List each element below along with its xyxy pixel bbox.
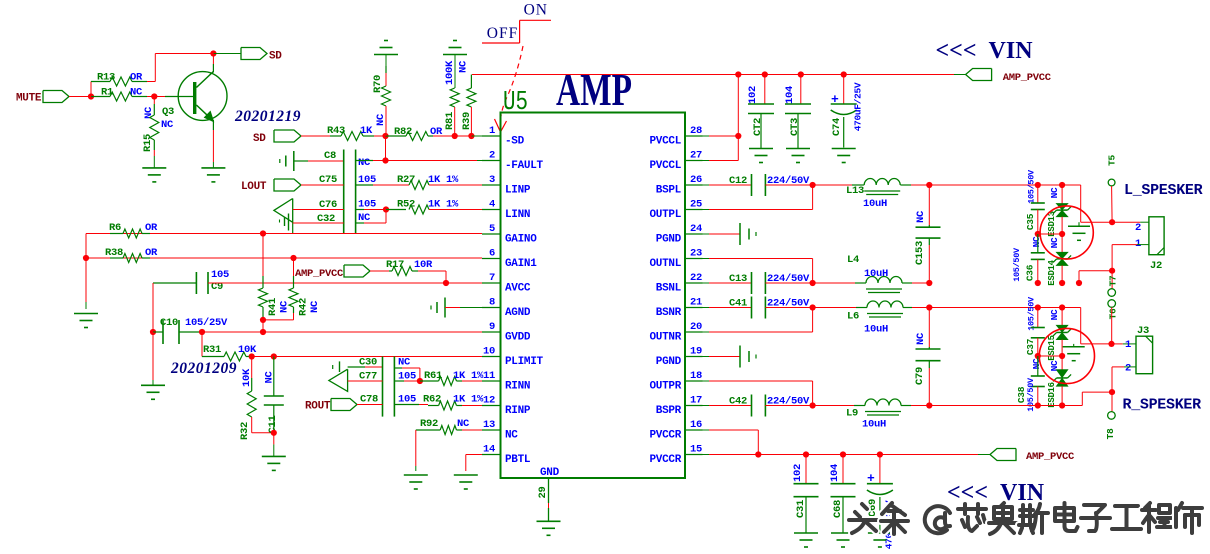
svg-text:9: 9 [489, 321, 495, 333]
capacitor C38 lead [1037, 356, 1039, 376]
svg-text:NC: NC [263, 371, 275, 384]
label ESD16 rotated [1047, 382, 1057, 408]
inductor L6 leads [813, 307, 856, 309]
wire C8 to pin2 [356, 160, 373, 162]
wire C36 bottom [1037, 259, 1039, 283]
svg-text:CT2: CT2 [752, 118, 764, 136]
svg-text:ESD14: ESD14 [1047, 259, 1057, 285]
svg-text:GAINO: GAINO [505, 234, 537, 246]
value NC of C153 rotated [915, 210, 927, 223]
port SD output connector [241, 48, 267, 60]
port SD input connector [274, 130, 301, 142]
wire AMPPVCC to R17 [370, 270, 389, 272]
wire C35 bottom [1037, 210, 1039, 235]
node R42 top junction [290, 255, 296, 261]
inductor L4 leads [813, 282, 855, 284]
svg-text:2: 2 [1135, 222, 1141, 234]
wire C153 bottom [928, 238, 930, 245]
wire R41 R42 bottoms [262, 307, 264, 320]
node pin1 left junction [382, 133, 388, 139]
wire R81 bottom [454, 107, 456, 136]
wire ESD15 to mid [1061, 340, 1063, 357]
wire C78 right [394, 404, 419, 406]
svg-text:R1: R1 [101, 87, 113, 99]
capacitor C31 [794, 483, 819, 485]
diode ESD14 [1061, 234, 1063, 252]
capacitor C35 [1031, 202, 1045, 204]
wire SD rail [155, 53, 213, 55]
svg-text:LOUT: LOUT [241, 181, 267, 193]
wire C75 to R27 [356, 184, 373, 186]
label ESD15 rotated [1047, 335, 1057, 361]
svg-text:C78: C78 [360, 394, 378, 406]
svg-text:AMP_PVCC: AMP_PVCC [295, 268, 344, 280]
svg-text:OR: OR [130, 72, 143, 84]
svg-text:C74: C74 [831, 118, 843, 136]
wire R1 to base node [147, 96, 155, 98]
wire C9C10 vertical [152, 283, 154, 332]
wire R15 to ground [153, 140, 155, 150]
node J2pin1 rail junction [1076, 280, 1082, 286]
svg-text:C37: C37 [1025, 338, 1036, 355]
value NC of ESD16 rotated [1049, 360, 1060, 371]
wire R17 to AVCC node [418, 270, 446, 272]
wire C13 to node [765, 282, 812, 284]
label C69 rotated [867, 499, 879, 517]
svg-text:2: 2 [489, 150, 495, 162]
inductor L6 [867, 301, 903, 308]
svg-text:102: 102 [792, 464, 804, 482]
value NC of ESD14 rotated [1049, 237, 1060, 248]
svg-text:R43: R43 [327, 125, 345, 137]
wire LOUT to C75 [301, 184, 344, 186]
svg-text:R27: R27 [397, 174, 415, 186]
wire to pin1 [471, 135, 482, 137]
svg-text:BSNR: BSNR [656, 307, 682, 319]
svg-text:PVCCL: PVCCL [649, 136, 681, 148]
value 105/50V of C36 rotated [1012, 247, 1022, 282]
wire R92 to pin13 [462, 429, 482, 431]
node ESD15 top junction [1059, 304, 1065, 310]
label R81 rotated [444, 112, 456, 130]
node C11 bottom junction [271, 430, 277, 436]
label C37 rotated [1025, 338, 1036, 355]
svg-text:4: 4 [489, 199, 495, 211]
capacitor C68 lead [842, 455, 844, 484]
svg-text:BSNL: BSNL [656, 283, 682, 295]
wire mid node [1038, 233, 1062, 235]
svg-text:24: 24 [690, 223, 702, 235]
resistor R61 [420, 380, 439, 382]
value NC of R15 rotated [143, 106, 155, 119]
capacitor C37 lead [1037, 308, 1039, 328]
svg-text:C13: C13 [729, 273, 747, 285]
wire C77 left [348, 380, 365, 382]
wire C10 left lead [153, 331, 163, 333]
svg-text:R31: R31 [203, 344, 221, 356]
wire C41 to node [765, 307, 812, 309]
svg-text:AVCC: AVCC [505, 283, 531, 295]
svg-text:MUTE: MUTE [16, 93, 42, 105]
resistor R70 top lead [385, 66, 387, 73]
svg-text:C75: C75 [319, 174, 337, 186]
wire C32 left [293, 222, 344, 224]
wire T5 [1111, 186, 1114, 222]
capacitor C36 [1031, 252, 1045, 254]
wire to J2 pin2 [1080, 185, 1082, 222]
svg-text:18: 18 [690, 370, 702, 382]
resistor R70 [382, 86, 391, 106]
resistor R39 [467, 88, 476, 107]
capacitor C38 [1031, 375, 1045, 377]
svg-text:R81: R81 [444, 112, 456, 130]
capacitor cluster right plate [355, 150, 357, 235]
value NC of R42 rotated [309, 300, 321, 313]
wire L13 rail right [929, 184, 1080, 186]
wire GAIN0 rail [86, 233, 482, 235]
value NC of R39 rotated [457, 60, 469, 73]
svg-text:1: 1 [1135, 238, 1141, 250]
node R41 bottom junction [260, 317, 266, 323]
inductor L4 [866, 277, 902, 284]
inductor L13 [864, 179, 900, 185]
svg-text:1: 1 [1125, 339, 1131, 351]
wire MUTE to node [69, 96, 91, 98]
wire mid node 2 [1038, 355, 1062, 357]
node C69 junction [877, 451, 883, 457]
label C74 rotated [831, 118, 843, 136]
svg-text:7: 7 [489, 272, 495, 284]
svg-text:C77: C77 [359, 371, 377, 383]
svg-text:PVCCR: PVCCR [649, 430, 681, 442]
svg-text:1K 1%: 1K 1% [453, 370, 484, 382]
wire ESD16 bottom [1061, 386, 1063, 405]
node R39 junction [468, 133, 474, 139]
svg-text:12: 12 [483, 395, 495, 407]
value 102 of CT2 rotated [747, 86, 759, 104]
svg-text:NC: NC [358, 157, 371, 169]
capacitor C153 lead [928, 185, 930, 225]
label C36 rotated [1025, 264, 1036, 281]
node C36 bottom junction [1035, 280, 1041, 286]
svg-text:2: 2 [1125, 363, 1131, 375]
capacitor C37 [1031, 327, 1045, 329]
capacitor C35 lead [1037, 185, 1039, 203]
wire C76 to node [356, 209, 364, 211]
wire R31 drop [201, 332, 203, 357]
ground below C69 [868, 532, 892, 534]
port MUTE connector [43, 91, 69, 103]
svg-text:C10: C10 [160, 317, 178, 329]
node MUTE junction [88, 93, 94, 99]
port AMP_PVCC mid connector [344, 265, 370, 277]
svg-text:13: 13 [483, 419, 495, 431]
svg-text:OFF: OFF [487, 25, 518, 42]
capacitor cluster2 left plate [382, 357, 384, 417]
svg-text:105: 105 [358, 174, 376, 186]
ground below R92 [404, 474, 428, 476]
inverted ground above R81 [443, 54, 467, 56]
svg-text:ON: ON [524, 2, 548, 19]
node J3 pin1 junction [1108, 341, 1114, 347]
wire R82 to pin1 [433, 135, 455, 137]
svg-text:OUTPR: OUTPR [649, 381, 681, 393]
port ROUT connector [331, 399, 357, 411]
svg-text:22: 22 [690, 272, 702, 284]
node R41 top junction [260, 230, 266, 236]
resistor R62 [439, 401, 457, 410]
svg-text:6: 6 [489, 248, 495, 260]
svg-text:105: 105 [398, 394, 416, 406]
label T7 rotated [1108, 275, 1119, 286]
node C38 bottom junction [1035, 402, 1041, 408]
svg-text:R61: R61 [424, 370, 442, 382]
svg-text:R42: R42 [297, 298, 309, 316]
node T7 junction [1109, 268, 1115, 274]
ground below C31 [794, 532, 818, 534]
wire GAIN1 rail [86, 257, 482, 259]
node C37 top junction [1035, 304, 1041, 310]
svg-text:NC: NC [130, 87, 143, 99]
label T8 rotated [1105, 428, 1116, 439]
label C31 rotated [795, 500, 807, 518]
capacitor C12 [751, 174, 753, 196]
wire R92 to ground [415, 430, 417, 466]
wire base [154, 96, 165, 98]
node R38 left junction [83, 255, 89, 261]
wire pin25 [703, 209, 710, 211]
node C79 top junction [926, 304, 932, 310]
resistor R1 [91, 96, 110, 98]
test point T8 [1108, 412, 1116, 420]
wire R13 left vertical [90, 82, 92, 97]
value 105/50V of C38 rotated [1026, 377, 1036, 412]
resistor R42 lead [293, 258, 295, 276]
ground at J3 pin1 [1073, 344, 1075, 347]
inverted ground above R70 [374, 54, 398, 56]
svg-text:LINP: LINP [505, 185, 531, 197]
svg-text:R15: R15 [142, 134, 154, 152]
wire pin26 [703, 184, 710, 186]
resistor R43 [330, 135, 341, 137]
node AVCC junction [443, 280, 449, 286]
wire J3 pin2 [1124, 366, 1136, 368]
label CT2 rotated [752, 118, 764, 136]
wire C11 to ground [273, 433, 275, 445]
svg-text:C38: C38 [1016, 386, 1027, 403]
wire C68 ground [842, 497, 844, 533]
label C153 rotated [914, 241, 926, 265]
wire T7 stub [1111, 271, 1113, 289]
diode ESD15 [1061, 308, 1063, 326]
capacitor C69 electrolytic [867, 483, 893, 485]
wire C38 bottom [1037, 387, 1039, 406]
wire C10 ground [152, 332, 154, 380]
dashed arrow to pin1 [501, 46, 524, 121]
node pin16 junction [755, 451, 761, 457]
svg-text:104: 104 [829, 464, 841, 482]
node T8 junction [1109, 389, 1115, 395]
wire R43 to node [374, 135, 386, 137]
label ESD14 rotated [1047, 259, 1057, 285]
svg-text:R6: R6 [109, 222, 121, 234]
svg-text:BSPR: BSPR [656, 405, 682, 417]
svg-text:C8: C8 [324, 150, 336, 162]
svg-text:R70: R70 [372, 75, 384, 93]
label R42 rotated [297, 298, 309, 316]
resistor R6 [110, 233, 123, 235]
svg-text:1K: 1K [360, 125, 373, 137]
capacitor C74 electrolytic [831, 103, 857, 105]
svg-text:105/50V: 105/50V [1026, 296, 1036, 331]
port AMP_PVCC bottom connector [990, 449, 1016, 461]
resistor R82 [386, 135, 407, 137]
svg-text:104: 104 [784, 86, 796, 104]
svg-text:20201219: 20201219 [234, 108, 301, 125]
resistor R38 [110, 257, 123, 259]
value NC of ESD13 rotated [1049, 187, 1060, 198]
value NC of R41 rotated [278, 300, 290, 313]
svg-text:8: 8 [489, 297, 495, 309]
svg-text:L4: L4 [847, 254, 859, 266]
svg-text:PVCCL: PVCCL [649, 160, 681, 172]
capacitor cluster2 right plate [393, 357, 395, 417]
svg-text:R13: R13 [97, 72, 115, 84]
ground below C11 [262, 455, 286, 457]
value 470uF of C69 rotated [884, 500, 895, 549]
svg-text:L13: L13 [846, 185, 864, 197]
node C153 top junction [926, 182, 932, 188]
value NC of C11 rotated [263, 371, 275, 384]
node R61 junction [417, 378, 423, 384]
svg-text:Q3: Q3 [162, 106, 174, 118]
svg-text:R41: R41 [267, 298, 279, 316]
IC left pins [482, 135, 501, 137]
wire pin21 [703, 307, 710, 309]
label 29 rotated [537, 486, 549, 498]
label C11 rotated [267, 415, 279, 433]
svg-text:10uH: 10uH [864, 324, 888, 336]
wire J3 pin1 cont [1112, 343, 1123, 345]
resistor R15 [150, 115, 159, 140]
svg-text:R82: R82 [394, 126, 412, 138]
svg-text:NC: NC [309, 300, 321, 313]
label T5 rotated [1106, 155, 1117, 166]
wire ESD13 to mid [1061, 217, 1063, 234]
label T6 rotated [1108, 308, 1119, 319]
node C37 bottom junction [1035, 353, 1041, 359]
wire pin27 [703, 160, 710, 162]
svg-text:105/50V: 105/50V [1012, 247, 1022, 282]
wire R61 to pin11 [462, 380, 482, 382]
wire R32 bottom [251, 417, 253, 433]
svg-text:T8: T8 [1105, 428, 1116, 439]
annotation circle right [1039, 328, 1094, 383]
svg-text:10: 10 [483, 346, 495, 358]
capacitor at PGND24 [739, 223, 741, 245]
wire C8 left [294, 160, 308, 162]
inductor L9 [865, 399, 901, 406]
svg-text:RINP: RINP [505, 405, 531, 417]
svg-text:25: 25 [690, 199, 702, 211]
svg-text:GVDD: GVDD [505, 332, 531, 344]
wire pin1 node to pin2 [385, 136, 387, 161]
svg-text:PGND: PGND [656, 234, 682, 246]
svg-text:27: 27 [690, 150, 702, 162]
connector J2 [1149, 217, 1164, 255]
node ESD mid junction [1059, 231, 1065, 237]
svg-text:105/25V: 105/25V [185, 317, 228, 329]
svg-text:C30: C30 [359, 357, 377, 369]
resistor R42 [289, 288, 298, 307]
svg-text:16: 16 [690, 419, 702, 431]
resistor R15 top lead [153, 97, 155, 105]
resistor R27 [409, 181, 429, 190]
buffer triangle 2 [329, 369, 348, 391]
capacitor cluster left plate [343, 150, 345, 235]
value 104 of CT3 rotated [784, 86, 796, 104]
svg-text:15: 15 [690, 444, 702, 456]
wire pin28 [703, 135, 710, 137]
svg-text:PGND: PGND [656, 356, 682, 368]
svg-text:26: 26 [690, 174, 702, 186]
ground below R15 [142, 167, 166, 169]
svg-text:NC: NC [1049, 237, 1060, 248]
svg-text:21: 21 [690, 297, 702, 309]
svg-text:GAIN1: GAIN1 [505, 258, 537, 270]
wire R52 to pin4 [429, 209, 482, 211]
node ESD13 top junction [1059, 182, 1065, 188]
label CT3 rotated [789, 118, 801, 136]
wire C10 to GVDD [179, 331, 202, 333]
svg-text:C12: C12 [729, 175, 747, 187]
svg-text:NC: NC [505, 430, 518, 442]
pin 29 stub [548, 478, 550, 503]
svg-text:C35: C35 [1025, 213, 1036, 230]
svg-text:NC: NC [457, 418, 470, 430]
capacitor C41 [751, 297, 753, 319]
capacitor C8 negative mark [279, 159, 281, 163]
svg-text:LINN: LINN [505, 209, 530, 221]
svg-text:U5: U5 [503, 88, 528, 118]
wire pin22 [703, 282, 710, 284]
wire pin28 to rail [737, 75, 739, 137]
op-amp U5 AMP IC box [501, 113, 686, 479]
wire R41 bottom to GVDD [262, 320, 264, 332]
svg-text:10R: 10R [414, 259, 433, 271]
resistor R92 [416, 429, 440, 431]
svg-text:CT3: CT3 [789, 118, 801, 136]
label R41 rotated [267, 298, 279, 316]
value NC of C36 rotated [1031, 236, 1042, 247]
svg-text:L9: L9 [846, 408, 858, 420]
capacitor C13 [751, 272, 753, 294]
label R32 rotated [239, 422, 251, 440]
svg-text:105: 105 [211, 269, 229, 281]
svg-text:ESD13: ESD13 [1047, 211, 1057, 237]
transistor Q3 [178, 72, 227, 121]
wire pin18 [703, 380, 710, 382]
wire T6 to J3 [1111, 307, 1113, 344]
wire C11 bottom [273, 405, 275, 433]
node ESD14 bottom junction [1059, 280, 1065, 286]
svg-text:NC: NC [915, 332, 927, 345]
value 100K rotated [444, 60, 456, 85]
svg-text:OR: OR [145, 222, 158, 234]
wire C77 right [394, 380, 404, 382]
svg-text:C42: C42 [729, 396, 747, 408]
wire ROUT to C78 [357, 404, 383, 406]
